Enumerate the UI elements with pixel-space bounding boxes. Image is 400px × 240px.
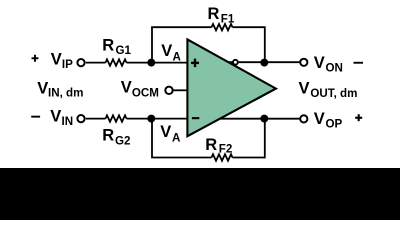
op-amp - input marker — [192, 117, 199, 119]
terminal VOP — [300, 115, 307, 122]
svg-text:R: R — [102, 127, 114, 145]
terminal VON — [300, 59, 307, 66]
svg-text:V: V — [50, 108, 61, 126]
wire: top input VIP to op-amp — [86, 62, 188, 64]
svg-text:V: V — [37, 79, 48, 97]
svg-text:V: V — [161, 42, 172, 60]
svg-text:V: V — [160, 123, 171, 141]
svg-text:V: V — [121, 79, 132, 97]
wire: top output line — [229, 61, 300, 63]
svg-text:R: R — [102, 37, 114, 55]
svg-text:V: V — [51, 51, 62, 69]
plus sign right of VOP — [355, 114, 362, 121]
wire: VOCM stub — [173, 89, 188, 91]
plus sign left of VIP — [32, 55, 39, 62]
svg-text:OCM: OCM — [132, 86, 159, 99]
svg-text:ON: ON — [326, 62, 343, 75]
svg-text:R: R — [205, 136, 217, 154]
resistor RF2 — [212, 154, 233, 160]
svg-text:R: R — [208, 5, 220, 23]
wire: bottom feedback loop — [152, 119, 265, 158]
svg-text:A: A — [172, 132, 181, 145]
node A: junction dot top-left — [147, 59, 155, 67]
svg-text:IN, dm: IN, dm — [48, 87, 83, 100]
svg-text:IN: IN — [62, 115, 74, 128]
minus sign right of VON — [354, 62, 364, 64]
wire: bottom input VIN to op-amp — [86, 118, 188, 120]
svg-text:IP: IP — [62, 58, 73, 71]
svg-text:OUT, dm: OUT, dm — [310, 87, 357, 100]
black footer band — [0, 168, 400, 220]
op-amp U1 — [187, 39, 276, 136]
op-amp + input marker — [191, 59, 199, 68]
wire: bottom output line — [220, 118, 300, 120]
resistor RG2 — [106, 115, 127, 121]
wire: top feedback loop — [152, 27, 265, 62]
terminal VIN — [77, 115, 84, 122]
svg-text:V: V — [299, 80, 310, 98]
minus sign left of VIN — [31, 116, 40, 118]
junction dot bottom-left — [147, 115, 155, 123]
resistor RG1 — [106, 59, 127, 65]
terminal VIP — [77, 59, 84, 66]
terminal VOCM — [165, 87, 172, 94]
svg-text:G1: G1 — [116, 44, 132, 57]
junction dot top-right — [260, 59, 268, 67]
svg-text:G2: G2 — [115, 135, 130, 148]
svg-text:F1: F1 — [221, 12, 235, 25]
svg-text:OP: OP — [326, 118, 343, 131]
svg-text:F2: F2 — [219, 142, 233, 155]
resistor RF1 — [212, 24, 233, 30]
svg-text:A: A — [173, 50, 182, 63]
junction dot bottom-right — [260, 115, 268, 123]
output node circle on hypotenuse — [233, 60, 238, 65]
svg-text:V: V — [314, 54, 325, 72]
svg-text:V: V — [314, 110, 325, 128]
